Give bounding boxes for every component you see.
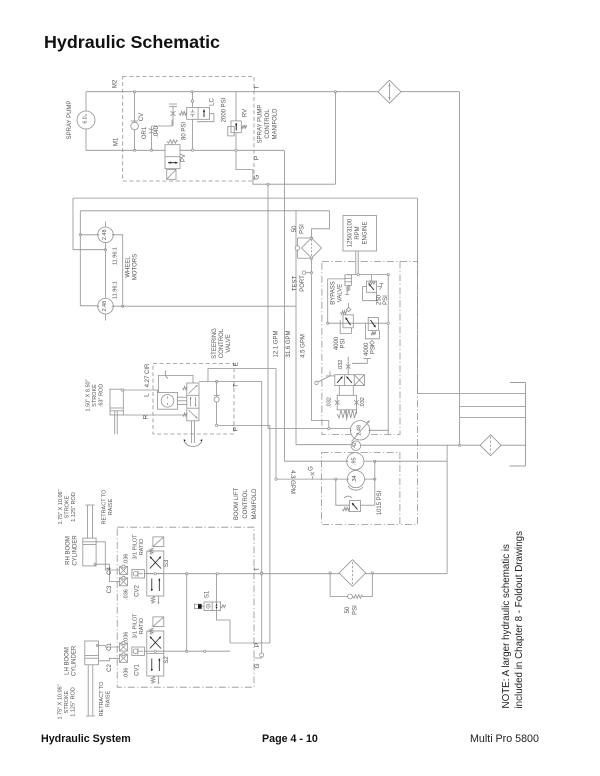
node rail-right <box>387 273 389 275</box>
svg-text:Hydraulic System: Hydraulic System <box>41 733 131 745</box>
svg-text:RAISE: RAISE <box>106 690 112 707</box>
node T-cooler branch <box>334 91 336 93</box>
svg-text:11.96:1: 11.96:1 <box>113 281 119 299</box>
gear pump .34 <box>347 471 364 488</box>
steering dashed border <box>153 363 234 434</box>
svg-text:PSI: PSI <box>300 224 306 234</box>
S1 spring <box>221 605 226 608</box>
wire rail link <box>186 574 188 652</box>
svg-text:.032: .032 <box>327 397 333 408</box>
svg-text:3/1 PILOT: 3/1 PILOT <box>133 613 139 639</box>
svg-text:2000 PSI: 2000 PSI <box>222 97 228 122</box>
RH boom cylinder <box>83 538 96 566</box>
proportional valve PV <box>165 145 180 169</box>
svg-text:4.27 CIR: 4.27 CIR <box>145 363 151 387</box>
orifice C4 .036 <box>120 567 128 575</box>
wire motor1 right <box>113 235 122 306</box>
svg-text:PSI: PSI <box>383 295 389 305</box>
steering wheel stem <box>191 421 193 443</box>
svg-text:1.50" X 8.50": 1.50" X 8.50" <box>86 379 92 411</box>
svg-text:.036: .036 <box>124 668 130 679</box>
svg-text:SPRAY PUMP: SPRAY PUMP <box>67 101 73 140</box>
relief valve 4000 PSI right <box>368 317 378 330</box>
svg-text:.036: .036 <box>124 589 130 600</box>
svg-text:PSI: PSI <box>340 338 346 348</box>
svg-text:Hydraulic Schematic: Hydraulic Schematic <box>44 32 220 52</box>
node T-CV <box>133 91 135 93</box>
svg-text:included in Chapter 8 - Foldou: included in Chapter 8 - Foldout Drawings <box>514 531 525 709</box>
svg-text:BYPASS: BYPASS <box>331 281 337 305</box>
svg-text:P: P <box>254 156 261 160</box>
test port <box>310 272 312 274</box>
svg-text:T: T <box>254 567 261 571</box>
steering check valve <box>216 382 218 426</box>
svg-text:4.3 GPM: 4.3 GPM <box>289 470 295 494</box>
wire motor case stub up <box>105 222 107 228</box>
wire P steering <box>217 424 270 426</box>
svg-text:S2: S2 <box>164 656 170 664</box>
S1 solenoid <box>195 604 202 608</box>
svg-text:MANIFOLD: MANIFOLD <box>252 488 258 520</box>
spray pump control manifold dashed border <box>123 77 254 182</box>
svg-text:S1: S1 <box>205 590 211 598</box>
svg-text:T: T <box>233 384 240 388</box>
wire traction line B y=210.8 <box>80 210 329 212</box>
node RV on P line <box>235 149 237 151</box>
svg-text:PSI: PSI <box>353 605 359 615</box>
wire .95 suction <box>285 460 347 462</box>
orifice OR1 .040 <box>151 126 153 150</box>
wire cooler riser lower <box>459 417 461 445</box>
wire .34 out <box>365 478 375 480</box>
svg-text:CV2: CV2 <box>134 585 140 597</box>
servo spring block <box>337 395 356 410</box>
svg-text:C2: C2 <box>107 664 113 672</box>
PV solenoid <box>167 170 176 180</box>
steering pilot loop <box>158 375 193 392</box>
svg-text:STROKE: STROKE <box>64 690 70 713</box>
node steering T to boom T <box>261 572 263 574</box>
wheel motor lower 2.48 <box>98 298 114 314</box>
svg-text:VALVE: VALVE <box>338 284 344 302</box>
svg-text:CV1: CV1 <box>134 664 140 676</box>
svg-text:RV: RV <box>243 109 249 117</box>
relief valve 4000 PSI left <box>346 307 350 311</box>
svg-text:C4: C4 <box>107 567 113 575</box>
svg-text:E: E <box>233 361 240 366</box>
wire motor2 left <box>80 305 97 307</box>
svg-text:.040: .040 <box>154 126 160 138</box>
svg-text:.036: .036 <box>124 554 130 565</box>
svg-text:1.125" ROD: 1.125" ROD <box>71 687 77 716</box>
svg-text:LC: LC <box>210 97 216 105</box>
svg-text:M1: M1 <box>114 137 120 146</box>
svg-text:STROKE: STROKE <box>65 495 71 518</box>
wheel motor upper 2.48 <box>98 227 114 243</box>
svg-text:1.75" X 10.06": 1.75" X 10.06" <box>58 684 64 719</box>
oil cooler diamond <box>378 80 401 103</box>
svg-text:31.6 GPM: 31.6 GPM <box>286 330 292 357</box>
servo centering spring <box>337 410 356 418</box>
servo feedback lines <box>338 386 340 396</box>
logic cartridge valve LC <box>187 107 210 119</box>
svg-text:1015 PSI: 1015 PSI <box>377 490 383 515</box>
wire T to G link <box>334 92 336 185</box>
wire charge return row <box>375 460 447 462</box>
node cooler-filter row <box>458 444 460 446</box>
svg-text:3/1 PILOT: 3/1 PILOT <box>133 534 139 560</box>
steering metering unit <box>158 393 178 410</box>
node motor1 left <box>79 234 81 236</box>
check valve CV <box>134 92 136 151</box>
wire motor link vertical <box>105 243 107 299</box>
svg-text:2.48: 2.48 <box>102 301 108 312</box>
svg-text:S3: S3 <box>164 559 170 567</box>
svg-text:RATIO: RATIO <box>139 538 145 555</box>
orifice C1 .036 <box>120 643 128 651</box>
wire .34 suction 4.3 GPM <box>276 478 347 480</box>
relief valve 250 PSI <box>371 275 373 282</box>
return filter diamond right <box>480 435 501 456</box>
svg-text:PORT: PORT <box>300 275 306 292</box>
wire pump suction 31.6 GPM <box>295 211 297 445</box>
wire boom T rail <box>144 573 447 575</box>
wire return B to tank <box>460 406 526 408</box>
steering valve <box>187 383 199 421</box>
svg-text:6.0: 6.0 <box>83 116 89 123</box>
svg-text:.63" ROD: .63" ROD <box>99 384 105 407</box>
wire P boom internal <box>230 642 254 644</box>
steering cylinder <box>110 389 123 415</box>
svg-text:CYLINDER: CYLINDER <box>73 535 79 566</box>
wire filter down 4.5 GPM <box>312 258 329 428</box>
svg-text:C1: C1 <box>107 643 113 651</box>
traction outer dashed border <box>400 262 417 525</box>
wire filter row <box>361 444 480 446</box>
svg-text:SPRAY PUMP: SPRAY PUMP <box>258 105 264 144</box>
node G-trunk <box>267 183 269 185</box>
wire C2 <box>99 658 120 661</box>
LH boom cylinder <box>85 641 99 665</box>
svg-text:PV: PV <box>181 154 187 162</box>
boom lift manifold dashed border <box>117 527 254 687</box>
orifice C2 .036 <box>120 654 128 662</box>
svg-text:1.75" X 10.06": 1.75" X 10.06" <box>58 489 64 524</box>
svg-text:250: 250 <box>377 294 383 305</box>
filter bypass loop <box>330 573 348 597</box>
svg-text:ENGINE: ENGINE <box>363 221 369 244</box>
LC pilot loop <box>197 114 214 122</box>
svg-text:M2: M2 <box>113 79 119 88</box>
wire C1 <box>98 646 120 648</box>
wire R <box>123 414 187 416</box>
wire spray G trunk down <box>267 184 269 428</box>
svg-text:NOTE: A larger hydraulic schem: NOTE: A larger hydraulic schematic is <box>501 544 512 709</box>
wire steering E trunk down <box>275 369 277 480</box>
svg-text:1.125" ROD: 1.125" ROD <box>71 492 77 521</box>
svg-text:BOOM LIFT: BOOM LIFT <box>234 488 240 521</box>
solenoid valve S2 <box>153 617 164 627</box>
wire E internal <box>208 369 276 382</box>
svg-text:WHEEL: WHEEL <box>126 256 132 278</box>
traction manifold dashed border <box>322 262 400 435</box>
svg-text:2.48: 2.48 <box>102 229 108 240</box>
solenoid valve S3 <box>153 537 164 547</box>
svg-text:CONTROL: CONTROL <box>243 489 249 519</box>
svg-text:50: 50 <box>292 225 298 232</box>
svg-text:4000: 4000 <box>334 336 340 350</box>
svg-text:C3: C3 <box>107 585 113 593</box>
node M1-CV <box>133 149 135 151</box>
svg-text:50: 50 <box>345 606 351 613</box>
wire RV to G port <box>236 133 335 185</box>
svg-text:12.1 GPM: 12.1 GPM <box>274 330 280 357</box>
tank reservoir <box>524 383 526 467</box>
wire cooler line to tank <box>460 416 526 418</box>
servo lever <box>315 381 318 384</box>
svg-text:STEERING: STEERING <box>212 328 218 359</box>
svg-text:G: G <box>254 663 261 668</box>
svg-text:G: G <box>254 175 261 180</box>
relief valve RV 2000 PSI <box>231 121 241 133</box>
node filter top <box>310 237 312 239</box>
filter bypass check <box>295 246 300 251</box>
wire .95 out <box>364 460 375 462</box>
wire S1 to P <box>217 611 231 644</box>
svg-text:STROKE: STROKE <box>92 384 98 407</box>
wire T line y=91.7 <box>86 91 460 93</box>
svg-text:T: T <box>253 85 260 89</box>
wire C4 <box>96 542 119 570</box>
node T-LC <box>191 91 193 93</box>
wire servo to pump <box>346 410 348 421</box>
servo valve body <box>335 375 365 386</box>
node rail-shaft <box>357 273 359 275</box>
rail mid y=323.2 <box>328 322 389 324</box>
check valve CV2 <box>132 570 145 579</box>
bypass valve <box>345 275 352 286</box>
metering links <box>178 396 187 398</box>
wire LC to M1 <box>192 119 194 150</box>
traction pump 2.48 <box>350 421 369 440</box>
wire return riser <box>446 445 448 573</box>
relief valve 1015 PSI <box>336 479 350 505</box>
svg-text:TEST: TEST <box>293 276 299 292</box>
svg-text:VALVE: VALVE <box>226 334 232 352</box>
svg-text:PSI: PSI <box>371 344 377 354</box>
wire traction line A y=198.1 <box>73 197 418 199</box>
wire boom feed down <box>254 425 270 643</box>
engine box <box>343 216 377 252</box>
svg-text:.42: .42 <box>352 442 358 449</box>
svg-text:CONTROL: CONTROL <box>265 109 271 139</box>
wire M1/P line y=150.3 <box>86 149 165 151</box>
svg-text:.032: .032 <box>338 360 344 371</box>
orifice C3 .036 <box>120 578 128 586</box>
wire motor1 left <box>80 234 97 236</box>
svg-text:Multi Pro 5800: Multi Pro 5800 <box>470 733 539 745</box>
wire steering T trunk down <box>261 382 263 574</box>
wire case drain to tank <box>418 198 526 393</box>
wire cooler to tank down right <box>459 92 461 418</box>
valve S1 <box>204 602 221 611</box>
svg-text:.032: .032 <box>360 397 366 408</box>
svg-text:RETRACT TO: RETRACT TO <box>102 489 108 525</box>
wire C3 <box>95 564 121 581</box>
wire S1 pilot <box>216 574 218 602</box>
wire charge rail right <box>374 461 376 505</box>
wire motor2 right to pump <box>113 305 296 307</box>
svg-text:G: G <box>309 466 315 471</box>
svg-text:4000: 4000 <box>364 342 370 356</box>
pump group dashed border <box>322 452 400 524</box>
svg-text:RETRACT TO: RETRACT TO <box>99 681 105 717</box>
wire T internal <box>199 381 262 383</box>
wire charge suction to pump 2.48 <box>268 428 350 430</box>
svg-text:.95: .95 <box>352 457 358 465</box>
svg-text:CONTROL: CONTROL <box>219 328 225 358</box>
LC pilot needle <box>172 106 174 127</box>
svg-text:CV: CV <box>139 113 145 121</box>
svg-text:P: P <box>254 643 261 647</box>
wire filter feed from traction line B <box>312 211 330 238</box>
wire bypass top rail <box>347 274 388 276</box>
node M1-OR1 <box>150 149 152 151</box>
return filter 50 PSI <box>339 560 366 587</box>
node charge join <box>328 427 330 429</box>
wire right inner trunk <box>387 275 389 435</box>
svg-text:MOTORS: MOTORS <box>133 254 139 280</box>
spray pump P1 <box>77 111 95 129</box>
svg-text:L: L <box>143 393 150 397</box>
svg-text:.036: .036 <box>124 632 130 643</box>
charge filter 50 PSI <box>302 238 322 258</box>
svg-text:80 PSI: 80 PSI <box>182 122 188 140</box>
svg-text:P: P <box>233 427 240 431</box>
wire spray P trunk 12.1 GPM <box>284 151 286 461</box>
wire pump to M1 line <box>85 129 87 150</box>
svg-text:RPM: RPM <box>355 226 361 239</box>
node motor2 right <box>122 305 124 307</box>
wire pump to T line <box>85 92 87 111</box>
node motor link <box>104 249 106 251</box>
gear pump .42 <box>351 441 361 451</box>
G port boom <box>254 657 262 659</box>
svg-text:.34: .34 <box>352 475 358 483</box>
svg-text:RAISE: RAISE <box>108 498 114 515</box>
svg-text:LH BOOM: LH BOOM <box>65 647 71 675</box>
wire pump 2.48 right <box>370 429 388 431</box>
wire .42 feed <box>296 444 351 446</box>
orifice .032 top <box>347 357 349 375</box>
wire L <box>123 390 157 393</box>
svg-text:4.5 GPM: 4.5 GPM <box>301 334 307 358</box>
svg-text:MANIFOLD: MANIFOLD <box>272 108 278 140</box>
svg-text:RATIO: RATIO <box>139 617 145 634</box>
engine shaft <box>355 251 357 274</box>
svg-text:CYLINDER: CYLINDER <box>72 645 78 676</box>
svg-text:RH BOOM: RH BOOM <box>66 536 72 565</box>
node filter bottom <box>310 257 312 259</box>
wire motor case stub down <box>105 314 107 321</box>
servo tank bracket <box>352 359 367 364</box>
wire boom lower rail <box>144 650 230 652</box>
check valve CV1 <box>132 647 145 656</box>
svg-text:1250/3100: 1250/3100 <box>348 218 354 247</box>
svg-text:OR1: OR1 <box>142 126 148 139</box>
gear pump .95 <box>347 453 364 470</box>
svg-text:Page 4 - 10: Page 4 - 10 <box>262 733 318 745</box>
svg-text:11.96:1: 11.96:1 <box>113 247 119 265</box>
wire engine to bypass <box>327 279 329 323</box>
